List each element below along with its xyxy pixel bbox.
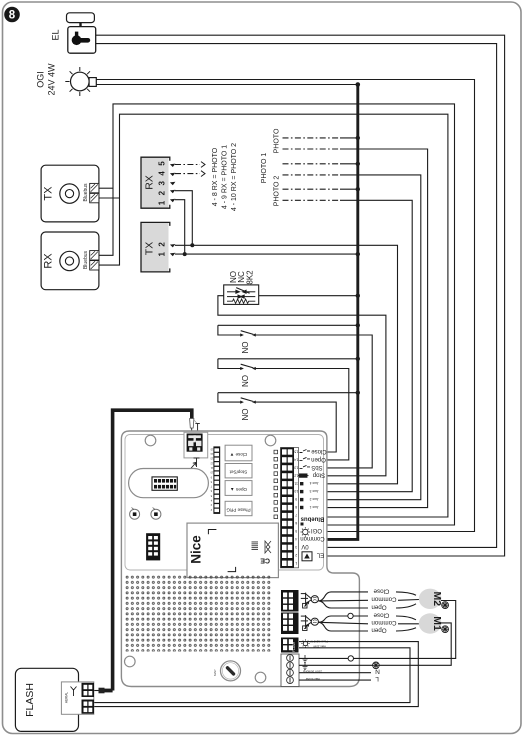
- svg-text:FLASH: FLASH: [24, 683, 36, 717]
- svg-text:Bluebus: Bluebus: [300, 516, 324, 522]
- svg-text:2: 2: [295, 553, 297, 557]
- svg-text:N: N: [375, 668, 380, 675]
- svg-text:TX: TX: [43, 186, 55, 201]
- svg-text:Stop/Set: Stop/Set: [229, 470, 247, 475]
- svg-text:NO: NO: [241, 409, 250, 421]
- wire bluebus B: [99, 197, 120, 199]
- svg-text:8K2: 8K2: [246, 270, 255, 285]
- svg-text:Aux 2: Aux 2: [310, 497, 319, 501]
- LED L2: [151, 508, 161, 520]
- svg-text:L: L: [375, 675, 379, 682]
- wire EL2 to terminal 0V: [96, 44, 497, 548]
- motor M2 silkscreen icon: [301, 593, 319, 608]
- wire 8K2 to terminal Stop: [218, 296, 386, 476]
- label Aux3 row10: [300, 490, 303, 493]
- screw hole bottom-mid: [255, 672, 266, 683]
- label SbS row13: [300, 465, 311, 468]
- svg-text:7: 7: [295, 513, 297, 517]
- board cover inner outline: [125, 435, 324, 571]
- svg-text:Close ▼: Close ▼: [230, 452, 248, 457]
- label Close row15: [300, 450, 311, 453]
- switch NO 3 (Close): [218, 391, 360, 453]
- earth screw M1: [442, 626, 449, 633]
- wire bluebus A (tx upper screw, rx upper screw, to terminal): [99, 187, 113, 189]
- svg-text:TX: TX: [144, 242, 156, 255]
- svg-text:5: 5: [295, 529, 297, 533]
- svg-text:Nice: Nice: [189, 535, 204, 564]
- earth bonding wire to M1: [299, 623, 451, 665]
- lamp OGI 24V 4W: [65, 67, 96, 96]
- screw hole bottom-left: [125, 656, 136, 667]
- svg-text:PHOTO: PHOTO: [274, 128, 281, 153]
- label Aux1 row8: [300, 506, 303, 509]
- RX pin4 optional line: [175, 171, 205, 177]
- flash silkscreen: [292, 639, 328, 652]
- svg-text:Bluebus: Bluebus: [83, 183, 89, 202]
- svg-text:Stop: Stop: [312, 472, 325, 478]
- wire photo common a: [283, 136, 360, 140]
- svg-text:EL: EL: [316, 552, 324, 558]
- flashing lamp FLASH box: [15, 668, 94, 731]
- wire photo input to terminal 8: [283, 149, 428, 508]
- LED L1: [130, 508, 140, 520]
- wire L stub: [299, 679, 371, 681]
- antenna coax cable (thick): [113, 410, 192, 690]
- svg-text:24V 4W: 24V 4W: [47, 63, 57, 96]
- svg-text:1 2 3 4 5: 1 2 3 4 5: [157, 160, 166, 206]
- main terminal strip 1-15: [15, 448, 455, 732]
- wire photo2 input to terminal 10: [283, 200, 413, 491]
- terminal numbers 15..1: [294, 450, 298, 565]
- button labels (upside down): [226, 452, 251, 513]
- power connector L N: [281, 654, 299, 687]
- svg-text:RX: RX: [43, 253, 55, 269]
- M1 wire fan-out: [319, 616, 369, 631]
- photocell TX (Bluebus): [41, 165, 99, 222]
- svg-text:M2: M2: [431, 592, 443, 607]
- radio connector header: [152, 477, 177, 490]
- wire 8K2 to bus: [259, 295, 358, 297]
- svg-text:PHOTO 1: PHOTO 1: [261, 153, 268, 184]
- wire EL1 to terminal EL: [96, 35, 505, 556]
- RX pin2 wire: [175, 191, 192, 246]
- svg-text:Aux 1: Aux 1: [310, 505, 319, 509]
- svg-text:Open ▲: Open ▲: [230, 487, 247, 492]
- svg-text:1 2: 1 2: [157, 241, 166, 257]
- svg-text:13: 13: [294, 465, 298, 469]
- label Aux2 row9: [300, 498, 303, 501]
- svg-text:Common: Common: [371, 596, 397, 603]
- label OGI row5: [301, 527, 311, 537]
- earth screw M2: [442, 602, 449, 609]
- svg-text:Bluebus: Bluebus: [83, 250, 89, 269]
- svg-text:FLASH: FLASH: [292, 641, 296, 652]
- label EL rows2-1: [302, 552, 312, 561]
- common bus (thick): [327, 85, 358, 540]
- svg-text:4: 4: [295, 537, 297, 541]
- grommet ring on earth wire: [348, 656, 353, 661]
- coax plug and leads into antenna terminals: [190, 419, 194, 429]
- connector block RX 1-5: [141, 157, 175, 208]
- terminal LED windows column: [274, 450, 278, 518]
- svg-text:Common: Common: [371, 619, 397, 626]
- flash lamp wire 2: [94, 648, 410, 703]
- screw hole top-right: [265, 435, 276, 446]
- svg-text:Aux 4: Aux 4: [310, 481, 319, 485]
- svg-text:14: 14: [294, 457, 298, 461]
- wire N stub: [299, 672, 371, 674]
- svg-text:EL: EL: [51, 29, 61, 40]
- svg-text:Close: Close: [311, 448, 327, 454]
- Nice logo cover box: [187, 523, 278, 578]
- svg-text:8: 8: [9, 10, 16, 22]
- wire photo2 common: [283, 187, 360, 191]
- RX pin1 wire: [175, 200, 185, 254]
- DIP switch block: [146, 533, 160, 560]
- svg-text:NO: NO: [241, 342, 250, 354]
- svg-text:Aux 3: Aux 3: [310, 489, 319, 493]
- electric lock EL: [67, 13, 96, 53]
- connector block TX 1-2: [141, 222, 175, 272]
- motor badge M1: [419, 613, 442, 633]
- wire OGI1 to terminal OGI: [96, 80, 474, 532]
- label Stop row12: [298, 474, 309, 477]
- flash terminal strip: [281, 638, 299, 653]
- svg-text:OGI: OGI: [311, 527, 322, 533]
- svg-text:CE: CE: [260, 557, 270, 564]
- wire OGI2 to common bus: [96, 84, 358, 86]
- flash lamp wire 1: [94, 642, 418, 707]
- switch NO 1 (SbS): [218, 323, 372, 468]
- svg-text:0V: 0V: [301, 543, 308, 549]
- label Open row14: [300, 457, 311, 460]
- figure number badge 8: [4, 7, 20, 23]
- svg-text:M1: M1: [431, 616, 443, 631]
- antenna symbol silkscreen: [190, 458, 200, 470]
- coax connector to flash aerial: [94, 690, 99, 692]
- screw hole top-left: [145, 435, 156, 446]
- grommet ring on M1 wire: [348, 613, 353, 618]
- svg-text:Open: Open: [311, 456, 326, 462]
- wire photo1 input to terminal 9: [283, 175, 421, 500]
- svg-text:4 - 8 RX = PHOTO: 4 - 8 RX = PHOTO: [212, 147, 219, 206]
- wire photo1 common: [283, 162, 360, 166]
- svg-text:6: 6: [295, 521, 297, 525]
- svg-text:10: 10: [294, 489, 298, 493]
- power silkscreen: [303, 655, 308, 670]
- wire TX common to bus: [175, 253, 358, 255]
- motor badge M2: [419, 589, 442, 609]
- 8K2 resistor contact box: [224, 285, 259, 305]
- rotary knob: [213, 661, 241, 681]
- M2 wires into badge: [396, 592, 419, 608]
- antenna terminal block on board: [184, 432, 208, 458]
- svg-text:PHOTO 2: PHOTO 2: [274, 176, 281, 207]
- motor M1 silkscreen icon: [301, 615, 319, 630]
- svg-text:SbS: SbS: [311, 464, 322, 470]
- M2 wire fan-out: [319, 592, 369, 608]
- svg-text:4 - 10 RX = PHOTO 2: 4 - 10 RX = PHOTO 2: [231, 143, 238, 211]
- push buttons column: [225, 445, 252, 516]
- led number strip: [15, 446, 455, 731]
- control unit board outline: [121, 431, 359, 687]
- svg-text:NO: NO: [241, 375, 250, 387]
- M1 wires into badge: [396, 616, 419, 631]
- svg-text:MAP: MAP: [213, 669, 217, 676]
- svg-text:Open: Open: [371, 603, 387, 610]
- svg-text:11: 11: [294, 481, 298, 485]
- svg-text:12: 12: [294, 473, 298, 477]
- svg-text:15: 15: [294, 450, 298, 454]
- svg-text:AERIAL: AERIAL: [65, 692, 69, 704]
- svg-text:OGI: OGI: [36, 71, 46, 88]
- svg-text:Close: Close: [373, 587, 389, 594]
- motor terminal strip M1: [281, 613, 299, 635]
- switch NO 2 (Open): [218, 357, 360, 460]
- svg-text:3: 3: [295, 545, 297, 549]
- motor terminal strip M2: [281, 590, 299, 612]
- svg-text:Close: Close: [373, 611, 389, 618]
- svg-text:RX: RX: [144, 175, 156, 190]
- earth screw symbol on wire: [373, 662, 380, 669]
- svg-text:Open: Open: [371, 626, 387, 633]
- svg-text:8: 8: [295, 505, 297, 509]
- svg-text:9: 9: [295, 497, 297, 501]
- earth bonding wire to M2: [299, 601, 456, 659]
- svg-text:4 - 9 RX = PHOTO 1: 4 - 9 RX = PHOTO 1: [222, 145, 229, 209]
- radio receiver oval slot: [129, 469, 209, 498]
- svg-text:Common: Common: [300, 535, 324, 541]
- photocell RX (Bluebus): [41, 232, 99, 290]
- wire TX supply to terminal 11: [175, 245, 398, 483]
- label Aux4 row11: [300, 482, 303, 485]
- terminal silkscreen labels (upside down): [298, 448, 327, 561]
- svg-text:Phase PRG: Phase PRG: [226, 508, 251, 513]
- svg-text:1: 1: [295, 561, 297, 565]
- RX pin5 optional line: [175, 162, 205, 168]
